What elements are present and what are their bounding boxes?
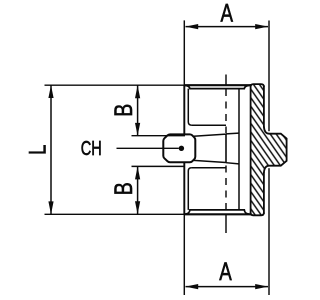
body bottom edge (184, 213, 250, 215)
hidden thread dashed line upper (225, 89, 227, 133)
hex center dot (179, 146, 184, 151)
thread runout line bottom (226, 163, 239, 164)
centerline tick below body (225, 214, 227, 233)
lower bore line (192, 167, 226, 169)
arrow A bottom right (255, 284, 268, 289)
arrow A top right (255, 24, 268, 29)
socket cone bottom line (194, 160, 227, 162)
stud outline (264, 127, 287, 173)
body left face line with A dim extensions (183, 20, 185, 295)
arrow B bottom lower (135, 201, 140, 214)
arrow A bottom left (185, 284, 198, 289)
dimension A bottom line (186, 286, 269, 288)
arrow L bottom (48, 201, 53, 214)
B bottom extension line (132, 165, 186, 167)
thread runout line top (226, 132, 239, 135)
dimension B top line (137, 85, 139, 136)
svg-text:A: A (219, 258, 232, 286)
socket cone right edge (225, 134, 227, 162)
section band top cap (251, 84, 264, 87)
arrow B bottom upper (135, 166, 140, 179)
upper bore line (192, 124, 226, 126)
svg-text:L: L (24, 145, 51, 155)
body bottom edge extension line (L dim) (45, 213, 185, 215)
arrow A top left (185, 24, 198, 29)
section band left edge (250, 84, 252, 215)
socket cone top line (194, 134, 227, 136)
inner left face line lower with fillet (188, 168, 191, 210)
section hatching (140, 80, 300, 220)
arrow B top lower (135, 123, 140, 136)
collar line (238, 89, 240, 210)
hidden thread dashed line lower (225, 166, 227, 210)
svg-text:B: B (109, 182, 137, 195)
svg-text:CH: CH (81, 137, 102, 160)
hex body top silhouette line with chamfer arcs (185, 85, 249, 88)
right extension line for A dims (268, 21, 270, 132)
dimension B bottom line (137, 166, 139, 214)
centerline tick above body (225, 75, 227, 86)
body top edge (184, 84, 250, 86)
dimension A top line (186, 26, 269, 28)
B top extension line (132, 135, 186, 137)
section band right edge upper (263, 86, 265, 128)
section band bottom cap (251, 213, 264, 216)
hex body bottom silhouette line with chamfer arcs (185, 210, 249, 214)
section band right edge lower (263, 172, 265, 214)
svg-text:B: B (109, 104, 137, 117)
inner left face line upper with fillet (188, 89, 191, 126)
dimension L line (50, 85, 52, 214)
CH leader line (117, 147, 179, 149)
arrow L top (48, 85, 53, 98)
arrow B top upper (135, 85, 140, 98)
svg-text:A: A (221, 0, 234, 27)
hex socket front view (163, 134, 195, 162)
body top edge extension line (L dim) (45, 84, 185, 86)
